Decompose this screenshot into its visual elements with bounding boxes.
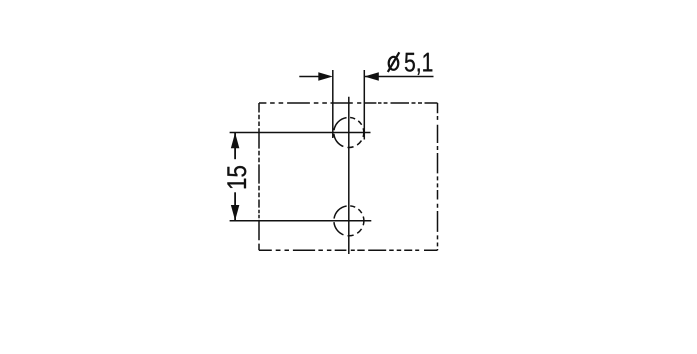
body outline right edge [437, 103, 439, 250]
lower horizontal centerline / extension line [230, 220, 372, 222]
extension line right of hole diameter [363, 70, 365, 140]
lower hole circle (dashed) [334, 206, 364, 236]
arrowhead up (15 dim top) [231, 133, 240, 149]
body outline bottom edge [259, 249, 438, 251]
text 15 value label (rotated) [227, 166, 246, 188]
arrowhead left (diam dim right) [364, 72, 379, 80]
text 5,1 value label [405, 53, 432, 75]
diameter symbol of label [388, 52, 400, 72]
vertical centerline through both holes [348, 97, 350, 254]
dimension line 15 lower segment [234, 192, 236, 221]
leader line under diameter text [364, 76, 433, 78]
dimension tail line left arrow [299, 76, 320, 78]
body outline top edge (phantom dash-dot-dot) [259, 102, 438, 104]
extension line left of hole diameter [332, 70, 334, 138]
upper hole circle (dashed) [334, 118, 364, 148]
arrowhead down (15 dim bottom) [231, 205, 240, 221]
upper horizontal centerline / extension line [230, 132, 371, 134]
dimension line 15 upper segment [234, 133, 236, 160]
body outline left edge [258, 103, 260, 250]
arrowhead right (diam dim left) [318, 72, 333, 80]
